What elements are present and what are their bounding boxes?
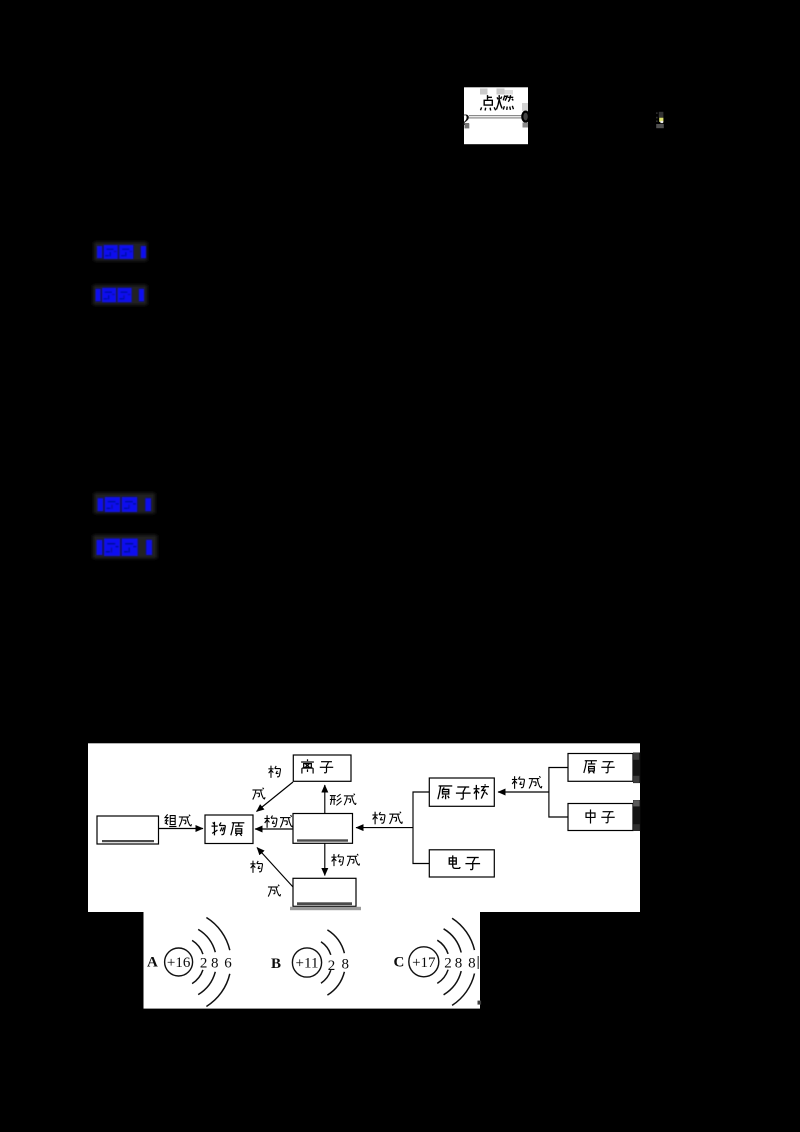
svg-text:2: 2 — [328, 958, 336, 974]
svg-text:+16: +16 — [167, 955, 191, 971]
svg-text:B: B — [271, 956, 281, 972]
svg-text:+11: +11 — [296, 956, 319, 972]
svg-text:2: 2 — [444, 955, 452, 971]
svg-text:8: 8 — [468, 955, 476, 971]
svg-text:6: 6 — [224, 955, 232, 971]
svg-text:2: 2 — [200, 955, 208, 971]
svg-text:8: 8 — [455, 955, 463, 971]
svg-text:+17: +17 — [412, 955, 436, 971]
svg-text:A: A — [147, 955, 158, 971]
svg-text:C: C — [394, 955, 405, 971]
svg-text:8: 8 — [211, 955, 219, 971]
svg-text:8: 8 — [342, 957, 350, 973]
